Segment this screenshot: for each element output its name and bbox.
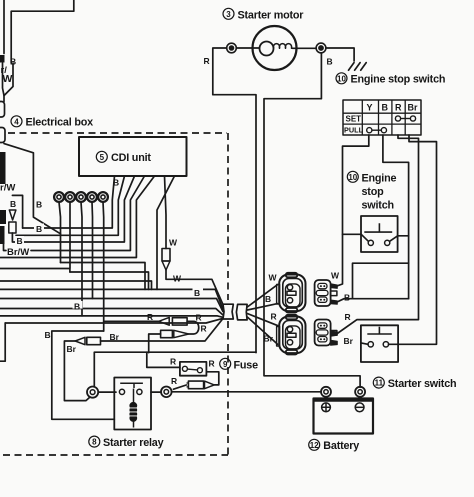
svg-text:R: R (171, 376, 177, 386)
svg-text:R: R (345, 312, 351, 322)
svg-text:R: R (201, 324, 207, 334)
svg-text:B: B (74, 301, 80, 311)
svg-text:B: B (344, 293, 350, 303)
svg-text:9: 9 (223, 360, 228, 369)
svg-text:R: R (395, 103, 402, 113)
svg-text:Fuse: Fuse (234, 359, 259, 371)
svg-text:B: B (382, 103, 389, 113)
svg-text:10: 10 (337, 74, 346, 83)
svg-text:B: B (194, 288, 200, 298)
svg-text:stop: stop (362, 186, 385, 198)
svg-text:Br: Br (264, 334, 274, 344)
svg-text:B: B (10, 57, 16, 67)
svg-text:W: W (173, 274, 182, 284)
svg-text:B: B (36, 224, 42, 234)
svg-text:11: 11 (375, 379, 384, 388)
svg-text:R: R (209, 359, 215, 369)
svg-text:Battery: Battery (323, 440, 359, 452)
svg-text:3: 3 (226, 10, 231, 19)
svg-text:5: 5 (100, 153, 105, 162)
svg-text:Y: Y (367, 103, 373, 113)
svg-text:10: 10 (348, 173, 357, 182)
svg-text:Br: Br (110, 332, 120, 342)
svg-text:12: 12 (310, 441, 319, 450)
svg-text:B: B (113, 178, 119, 188)
svg-text:W: W (3, 73, 13, 85)
svg-text:B: B (10, 199, 16, 209)
svg-text:Engine: Engine (362, 173, 397, 185)
svg-text:Starter switch: Starter switch (388, 378, 457, 390)
svg-text:8: 8 (92, 438, 97, 447)
svg-text:PULL: PULL (344, 126, 364, 135)
svg-text:Starter motor: Starter motor (238, 9, 305, 21)
svg-text:SET: SET (346, 115, 362, 124)
svg-text:4: 4 (14, 117, 19, 126)
svg-text:R: R (147, 312, 153, 322)
svg-text:R: R (204, 56, 210, 66)
svg-text:B: B (265, 294, 271, 304)
svg-text:W: W (169, 238, 178, 248)
svg-text:Br: Br (67, 344, 77, 354)
svg-text:R: R (170, 357, 176, 367)
svg-text:B: B (45, 330, 51, 340)
svg-text:Br: Br (344, 336, 354, 346)
svg-text:r/W: r/W (0, 183, 15, 194)
svg-text:Engine stop switch: Engine stop switch (351, 74, 446, 86)
svg-text:switch: switch (362, 200, 394, 212)
svg-text:CDI unit: CDI unit (111, 152, 151, 164)
svg-text:B: B (17, 236, 23, 246)
svg-text:B: B (327, 57, 333, 67)
svg-text:W: W (269, 273, 278, 283)
svg-text:B: B (36, 200, 42, 210)
svg-text:R: R (196, 313, 202, 323)
svg-text:Br: Br (408, 103, 418, 113)
svg-text:R: R (271, 312, 277, 322)
svg-text:W: W (331, 271, 340, 281)
svg-text:Br/W: Br/W (7, 247, 29, 258)
svg-text:Starter relay: Starter relay (103, 437, 164, 449)
svg-text:Electrical box: Electrical box (26, 117, 94, 129)
